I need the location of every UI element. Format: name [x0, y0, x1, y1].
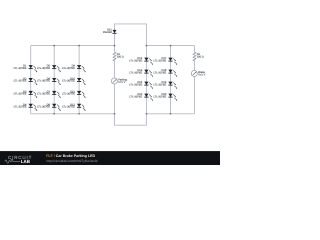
- junction node at x=54.2 y=45.6: [53, 45, 55, 47]
- LED D16 LTL-307EE: [129, 93, 153, 101]
- svg-text:LTL-307EE: LTL-307EE: [37, 106, 50, 109]
- LED D5 LTL-307EE: [37, 65, 61, 73]
- CircuitLab logo waveform: [5, 160, 20, 164]
- junction node at x=79.1 y=113.8: [78, 113, 80, 115]
- svg-text:LTL-307EE: LTL-307EE: [153, 83, 166, 86]
- junction node at x=79.1 y=45.6: [78, 45, 80, 47]
- LED D7 LTL-307EE: [37, 90, 61, 98]
- wire vertical rail left column 2: [53, 46, 55, 114]
- LED D2 LTL-307EE: [14, 78, 38, 86]
- svg-text:LTL-307EE: LTL-307EE: [37, 80, 50, 83]
- svg-text:V=1 V: V=1 V: [198, 74, 205, 77]
- junction node at x=54.2 y=113.8: [53, 113, 55, 115]
- svg-text:http://circuitlab.com/chn97y8u: http://circuitlab.com/chn97y8uv3zv9/: [46, 159, 97, 163]
- svg-text:LAB: LAB: [21, 159, 31, 164]
- wire bottom U jog between buses: [115, 114, 147, 125]
- LED D9 LTL-307EE: [62, 65, 86, 73]
- svg-text:LTL-307EE: LTL-307EE: [37, 67, 50, 70]
- junction node at x=146.4 y=45.6: [146, 45, 148, 47]
- junction node at x=146.4 y=113.8: [146, 113, 148, 115]
- svg-text:LTL-307EE: LTL-307EE: [129, 59, 142, 62]
- svg-text:LTL-307EE: LTL-307EE: [129, 71, 142, 74]
- svg-text:LTL-307EE: LTL-307EE: [129, 95, 142, 98]
- wire vertical rail left column 1: [30, 46, 32, 114]
- LED D20 LTL-307EE: [153, 93, 177, 101]
- svg-text:V=1 V: V=1 V: [118, 81, 125, 84]
- resistor R2 100 Ohm: [193, 52, 204, 61]
- wire bottom bus left segment: [31, 113, 115, 115]
- voltage source V1 Parking: [111, 78, 127, 84]
- wire D21 bypass loop: [115, 24, 147, 46]
- wire top bus right segment: [146, 45, 194, 47]
- svg-text:LTL-307EE: LTL-307EE: [62, 106, 75, 109]
- voltage source V2 Brake: [191, 70, 205, 76]
- wire top bus left segment: [31, 45, 115, 47]
- LED D17 LTL-307EE: [153, 57, 177, 65]
- svg-text:LTL-307EE: LTL-307EE: [153, 71, 166, 74]
- svg-text:LTL-307EE: LTL-307EE: [129, 83, 142, 86]
- svg-text:LTL-307EE: LTL-307EE: [62, 80, 75, 83]
- junction node at x=114.5 y=113.8: [114, 113, 116, 115]
- junction node at x=170.5 y=45.6: [170, 45, 172, 47]
- wire vertical rail middle column 1: [145, 46, 147, 114]
- wire vertical rail left column 3: [78, 46, 80, 114]
- svg-text:LTL-307EE: LTL-307EE: [153, 59, 166, 62]
- diode D21 1N4148: [103, 29, 117, 34]
- wire D21 cathode to bus: [114, 34, 116, 46]
- footer bar: [0, 151, 220, 165]
- LED D3 LTL-307EE: [14, 90, 38, 98]
- wire vertical rail middle column 2: [170, 46, 172, 114]
- junction node at x=170.5 y=113.8: [170, 113, 172, 115]
- LED D15 LTL-307EE: [129, 81, 153, 89]
- LED D19 LTL-307EE: [153, 81, 177, 89]
- LED D8 LTL-307EE: [37, 103, 61, 111]
- svg-text:LTL-307EE: LTL-307EE: [62, 93, 75, 96]
- LED D18 LTL-307EE: [153, 69, 177, 77]
- svg-text:FLF / Car Brake Parking LED: FLF / Car Brake Parking LED: [46, 154, 95, 158]
- LED D4 LTL-307EE: [14, 103, 38, 111]
- svg-text:100 Ω: 100 Ω: [117, 56, 124, 59]
- wire R1 / V1 rail: [114, 46, 116, 114]
- wire bottom bus right segment: [146, 113, 194, 115]
- svg-text:1N4148: 1N4148: [103, 31, 113, 34]
- LED D11 LTL-307EE: [62, 90, 86, 98]
- svg-text:LTL-307EE: LTL-307EE: [14, 106, 27, 109]
- svg-text:LTL-307EE: LTL-307EE: [153, 95, 166, 98]
- resistor R1 100 Ohm: [113, 52, 124, 61]
- LED D13 LTL-307EE: [129, 57, 153, 65]
- LED D6 LTL-307EE: [37, 78, 61, 86]
- LED D10 LTL-307EE: [62, 78, 86, 86]
- LED D1 LTL-307EE: [14, 65, 38, 73]
- LED D12 LTL-307EE: [62, 103, 86, 111]
- svg-text:LTL-307EE: LTL-307EE: [14, 93, 27, 96]
- svg-text:LTL-307EE: LTL-307EE: [62, 67, 75, 70]
- LED D14 LTL-307EE: [129, 69, 153, 77]
- svg-text:100 Ω: 100 Ω: [197, 56, 204, 59]
- svg-text:LTL-307EE: LTL-307EE: [37, 93, 50, 96]
- wire R2 / V2 rail: [194, 46, 196, 114]
- junction node at x=114.5 y=45.6: [114, 45, 116, 47]
- svg-text:LTL-307EE: LTL-307EE: [14, 80, 27, 83]
- svg-text:LTL-307EE: LTL-307EE: [14, 67, 27, 70]
